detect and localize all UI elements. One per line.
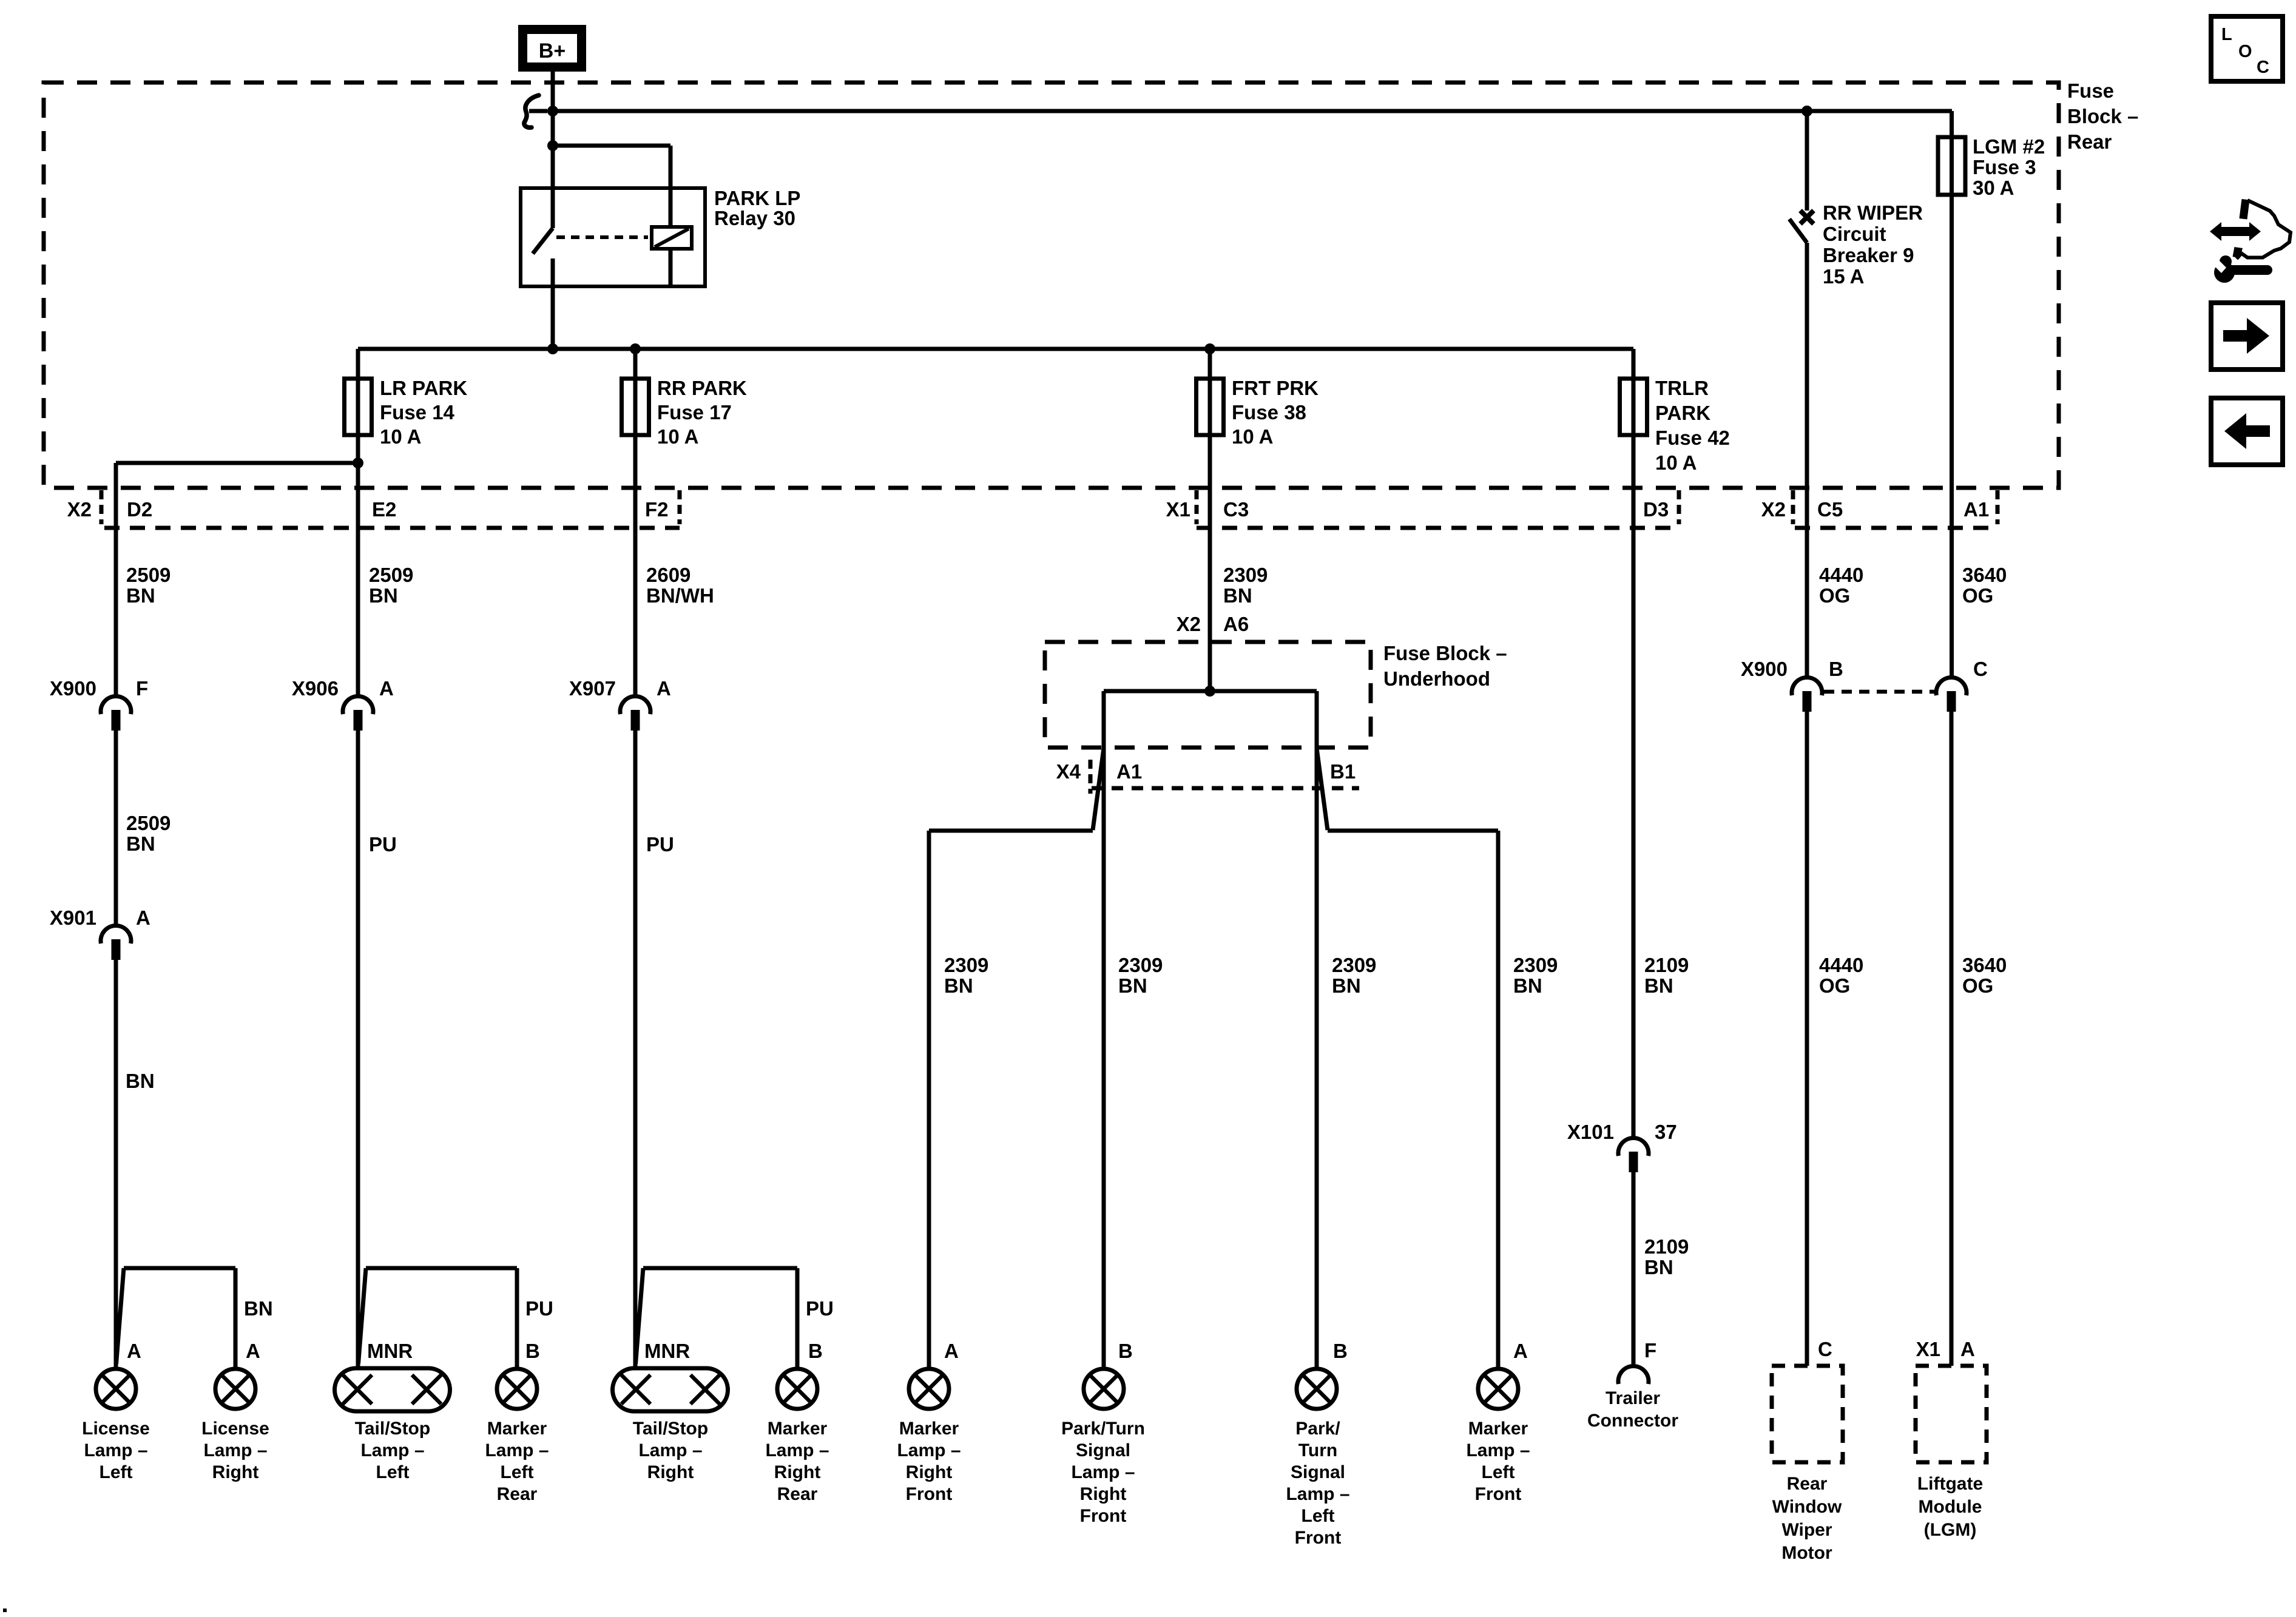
relay coil box [652, 227, 692, 249]
svg-text:Fuse Block –: Fuse Block – [1383, 642, 1507, 664]
svg-text:F: F [1644, 1339, 1656, 1362]
svg-text:OG: OG [1962, 584, 1993, 607]
svg-text:2109: 2109 [1644, 954, 1689, 976]
svg-text:Right: Right [212, 1462, 259, 1482]
svg-text:A1: A1 [1116, 760, 1142, 783]
svg-text:Module: Module [1919, 1497, 1982, 1517]
wire to relay coil [553, 144, 670, 148]
svg-text:Connector: Connector [1587, 1411, 1678, 1431]
svg-text:Marker: Marker [899, 1419, 959, 1439]
svg-text:Fuse 38: Fuse 38 [1232, 401, 1306, 424]
wire 3640 OG lower [1950, 712, 1954, 1366]
svg-text:X2: X2 [1761, 498, 1786, 521]
marker lamp left front [1478, 1369, 1518, 1409]
back arrow icon [2211, 398, 2283, 465]
svg-text:Relay 30: Relay 30 [714, 207, 795, 229]
svg-text:B: B [1118, 1340, 1133, 1362]
svg-text:Right: Right [906, 1462, 953, 1482]
svg-text:RR PARK: RR PARK [657, 377, 747, 399]
svg-text:2309: 2309 [1118, 954, 1163, 976]
forward arrow icon [2211, 303, 2283, 370]
wire marker right front down [927, 831, 931, 1369]
svg-text:Fuse 17: Fuse 17 [657, 401, 732, 424]
wire 2109 BN lower [1632, 1172, 1636, 1366]
svg-text:10 A: 10 A [1232, 425, 1273, 448]
relay actuator dashed link [556, 235, 648, 239]
battery positive B+ symbol [523, 30, 582, 67]
svg-text:A: A [1513, 1340, 1528, 1362]
wire relay output to bus [551, 258, 555, 349]
svg-text:X1: X1 [1166, 498, 1190, 521]
svg-text:Right: Right [647, 1462, 694, 1482]
svg-text:Rear: Rear [2067, 130, 2112, 153]
separator F2 [678, 490, 682, 524]
svg-text:A: A [136, 906, 150, 929]
marker right rear branch [643, 1266, 797, 1271]
svg-text:Left: Left [100, 1462, 133, 1482]
wire LR PARK branch [356, 349, 360, 695]
relay coil wire to box bottom [669, 249, 673, 286]
svg-text:PU: PU [646, 833, 674, 856]
wire LGM fuse down [1950, 137, 1954, 677]
svg-text:License: License [201, 1419, 269, 1439]
svg-text:Marker: Marker [1468, 1419, 1528, 1439]
svg-text:Lamp –: Lamp – [1071, 1462, 1135, 1482]
svg-text:2309: 2309 [1223, 564, 1268, 586]
svg-text:Fuse 42: Fuse 42 [1655, 427, 1730, 449]
svg-text:B+: B+ [539, 39, 566, 62]
svg-text:X101: X101 [1567, 1121, 1614, 1143]
node bus relay output [547, 343, 558, 354]
svg-text:B: B [1829, 658, 1843, 680]
svg-text:A: A [246, 1340, 260, 1362]
svg-text:A1: A1 [1963, 498, 1989, 521]
svg-text:A: A [944, 1340, 959, 1362]
wire FRT PRK branch [1208, 349, 1212, 691]
node license branch tap [353, 457, 363, 468]
lamp license left [96, 1369, 136, 1409]
wire RR PARK branch [633, 349, 638, 695]
svg-text:BN: BN [369, 584, 398, 607]
svg-text:C: C [1818, 1338, 1832, 1360]
tail stop lamp left pill [335, 1368, 450, 1411]
fuse F17 RR PARK [622, 379, 649, 435]
svg-text:A: A [1960, 1338, 1975, 1360]
svg-text:PARK: PARK [1655, 402, 1710, 424]
svg-text:10 A: 10 A [1655, 451, 1697, 474]
rear window wiper motor box [1772, 1366, 1843, 1462]
svg-text:Lamp –: Lamp – [1466, 1440, 1530, 1460]
svg-text:Window: Window [1772, 1497, 1842, 1517]
separator X2 row1 [100, 490, 104, 524]
svg-text:F: F [136, 677, 148, 700]
svg-text:Lamp –: Lamp – [485, 1440, 549, 1460]
wire marker left front horiz [1328, 829, 1498, 833]
svg-text:X2: X2 [67, 498, 92, 521]
svg-text:Tail/Stop: Tail/Stop [355, 1419, 430, 1439]
svg-text:L: L [2221, 25, 2232, 44]
svg-text:MNR: MNR [644, 1340, 690, 1362]
svg-text:PU: PU [806, 1297, 834, 1320]
svg-text:A: A [127, 1340, 141, 1362]
svg-text:BN: BN [1223, 584, 1252, 607]
separator X1 [1195, 490, 1199, 524]
svg-text:O: O [2238, 42, 2252, 61]
svg-text:Lamp –: Lamp – [84, 1440, 147, 1460]
connector X101 37 [1618, 1138, 1649, 1156]
connector row fine dashed line right [1795, 526, 1997, 530]
bus wire [358, 347, 1633, 351]
pt signal lamp left front [1297, 1369, 1337, 1409]
svg-text:BN: BN [126, 832, 155, 855]
service icon wrench [2214, 262, 2235, 283]
separator A1 [1996, 490, 2000, 524]
svg-text:Tail/Stop: Tail/Stop [633, 1419, 708, 1439]
wire 4440 OG lower [1805, 712, 1809, 1366]
connector X906 A [343, 697, 373, 714]
node relay coil tap [547, 140, 558, 151]
svg-text:Front: Front [1295, 1528, 1342, 1548]
svg-text:2509: 2509 [369, 564, 413, 586]
svg-text:2309: 2309 [1513, 954, 1558, 976]
svg-text:Lamp –: Lamp – [765, 1440, 829, 1460]
tail stop lamp right Xs [621, 1375, 650, 1404]
wire marker left front down [1496, 831, 1501, 1369]
wire A1 branch down [1102, 691, 1106, 1369]
svg-text:Front: Front [906, 1484, 953, 1504]
svg-text:PU: PU [369, 833, 397, 856]
connector X900 F [101, 697, 131, 714]
marker lamp left rear [497, 1369, 537, 1409]
tail stop lamp left Xs [343, 1375, 372, 1404]
wire B1 branch down [1315, 691, 1319, 1369]
tail stop lamp right pill [613, 1368, 728, 1411]
svg-text:C: C [1973, 658, 1988, 680]
liftgate module box [1916, 1366, 1987, 1462]
svg-text:Underhood: Underhood [1383, 667, 1490, 690]
svg-text:Wiper: Wiper [1781, 1520, 1832, 1540]
svg-text:A: A [379, 677, 394, 700]
svg-text:BN: BN [1513, 974, 1542, 997]
svg-text:4440: 4440 [1819, 954, 1863, 976]
svg-text:PARK LP: PARK LP [714, 187, 800, 209]
svg-text:BN: BN [244, 1297, 273, 1320]
svg-text:Signal: Signal [1291, 1462, 1345, 1482]
svg-text:D2: D2 [127, 498, 152, 521]
svg-text:BN: BN [126, 1070, 155, 1092]
connector X900 B [1792, 678, 1822, 695]
wire B+ down [551, 72, 555, 228]
svg-text:MNR: MNR [367, 1340, 413, 1362]
LOC reference icon [2211, 16, 2283, 81]
svg-text:2309: 2309 [1332, 954, 1376, 976]
svg-text:Right: Right [774, 1462, 821, 1482]
separator X2 row2 [1791, 490, 1795, 524]
svg-text:RR WIPER: RR WIPER [1823, 201, 1923, 224]
svg-text:2309: 2309 [944, 954, 988, 976]
svg-text:15 A: 15 A [1823, 265, 1864, 288]
svg-text:BN: BN [126, 584, 155, 607]
svg-text:BN/WH: BN/WH [646, 584, 714, 607]
relay switch blade [533, 228, 553, 254]
connector X907 A [620, 697, 650, 714]
svg-text:E2: E2 [372, 498, 396, 521]
svg-text:LR PARK: LR PARK [380, 377, 467, 399]
svg-text:30 A: 30 A [1973, 177, 2014, 199]
svg-text:3640: 3640 [1962, 564, 2007, 586]
svg-text:X1: X1 [1916, 1338, 1940, 1360]
svg-text:LGM #2: LGM #2 [1973, 135, 2045, 158]
svg-text:Front: Front [1080, 1506, 1127, 1526]
svg-text:BN: BN [1118, 974, 1147, 997]
svg-text:Motor: Motor [1781, 1543, 1832, 1563]
svg-text:C3: C3 [1223, 498, 1249, 521]
wire B1 tap slant [1317, 748, 1328, 830]
separator D3 [1677, 490, 1681, 524]
svg-text:X900: X900 [1741, 658, 1788, 680]
connector row fine dashed line middle [1197, 526, 1675, 530]
marker lamp right front [909, 1369, 949, 1409]
svg-text:37: 37 [1655, 1121, 1677, 1143]
svg-text:Turn: Turn [1298, 1440, 1337, 1460]
svg-text:Rear: Rear [777, 1484, 818, 1504]
svg-text:Park/Turn: Park/Turn [1061, 1419, 1145, 1439]
node breaker tap [1801, 106, 1812, 116]
svg-text:Lamp –: Lamp – [1286, 1484, 1349, 1504]
svg-text:(LGM): (LGM) [1924, 1520, 1977, 1540]
wire TRLR PARK branch [1632, 349, 1636, 1137]
relay PARK LP Relay 30 box [521, 188, 705, 286]
svg-text:OG: OG [1962, 974, 1993, 997]
svg-text:C: C [2257, 58, 2269, 77]
svg-text:X906: X906 [292, 677, 339, 700]
svg-text:B: B [1333, 1340, 1348, 1362]
svg-text:2509: 2509 [126, 812, 171, 834]
svg-text:License: License [82, 1419, 150, 1439]
svg-text:BN: BN [1644, 974, 1673, 997]
fuse F14 LR PARK [345, 379, 372, 435]
svg-text:Marker: Marker [768, 1419, 828, 1439]
svg-text:Signal: Signal [1076, 1440, 1130, 1460]
svg-text:X2: X2 [1177, 613, 1201, 635]
license lamp branch [124, 1266, 235, 1271]
svg-text:A6: A6 [1223, 613, 1249, 635]
wire corner down to LGM fuse [1950, 111, 1954, 137]
lamp license right [215, 1369, 255, 1409]
fuse block underhood dashed box [1045, 642, 1371, 748]
wire PU col C [633, 731, 638, 1368]
page mark [3, 1609, 7, 1612]
svg-text:Liftgate: Liftgate [1917, 1474, 1983, 1494]
svg-text:Fuse: Fuse [2067, 79, 2114, 102]
svg-text:Rear: Rear [1787, 1474, 1828, 1494]
svg-text:Right: Right [1080, 1484, 1127, 1504]
svg-text:2109: 2109 [1644, 1235, 1689, 1258]
node at B+ feed split [547, 106, 558, 116]
fuse F38 FRT PRK [1197, 379, 1224, 435]
trailer connector arc [1618, 1366, 1649, 1384]
wire marker right front horiz [929, 829, 1093, 833]
svg-text:OG: OG [1819, 584, 1850, 607]
wire feed to right (to breaker and LGM fuse) [553, 109, 1952, 113]
connector X900 C [1936, 678, 1967, 695]
fuse F3 LGM #2 [1938, 137, 1965, 195]
svg-text:BN: BN [944, 974, 973, 997]
wire license branch [116, 461, 358, 465]
node underhood split [1204, 686, 1215, 697]
wire underhood header [1104, 689, 1317, 694]
fuse block rear dashed box [44, 83, 2059, 488]
svg-text:Circuit: Circuit [1823, 223, 1886, 245]
svg-text:BN: BN [1332, 974, 1361, 997]
circuit breaker 9 RR WIPER [1805, 111, 1809, 211]
svg-text:Park/: Park/ [1295, 1419, 1340, 1439]
wire 2509 BN col A upper [114, 463, 118, 695]
svg-text:Fuse 14: Fuse 14 [380, 401, 455, 424]
svg-text:X907: X907 [569, 677, 616, 700]
wire 2509 BN col A mid [114, 731, 118, 925]
svg-text:X901: X901 [50, 906, 96, 929]
svg-text:Lamp –: Lamp – [360, 1440, 424, 1460]
svg-text:B: B [525, 1340, 540, 1362]
pt signal lamp right front [1084, 1369, 1124, 1409]
marker lamp right rear [777, 1369, 817, 1409]
svg-text:X900: X900 [50, 677, 96, 700]
svg-text:Block –: Block – [2067, 105, 2138, 127]
dashed link X900 B-C [1824, 690, 1934, 694]
svg-text:3640: 3640 [1962, 954, 2007, 976]
svg-text:Left: Left [501, 1462, 534, 1482]
svg-text:Breaker 9: Breaker 9 [1823, 244, 1914, 266]
svg-text:A: A [657, 677, 671, 700]
svg-text:F2: F2 [645, 498, 669, 521]
fuse F42 TRLR PARK [1620, 379, 1647, 435]
svg-text:Left: Left [376, 1462, 410, 1482]
svg-text:TRLR: TRLR [1655, 377, 1709, 399]
separator X4 [1089, 760, 1093, 794]
wire A1 tap slant [1093, 748, 1104, 830]
svg-text:Lamp –: Lamp – [897, 1440, 961, 1460]
wire BN col A low [114, 960, 118, 1369]
svg-text:Left: Left [1482, 1462, 1515, 1482]
svg-text:BN: BN [1644, 1256, 1673, 1278]
svg-text:10 A: 10 A [657, 425, 698, 448]
svg-text:Lamp –: Lamp – [638, 1440, 702, 1460]
svg-text:D3: D3 [1643, 498, 1669, 521]
service icon double arrow [2210, 222, 2261, 241]
node bus FRT PRK tap [1204, 343, 1215, 354]
underhood row fine dashed line [1092, 786, 1359, 791]
svg-text:PU: PU [525, 1297, 553, 1320]
svg-text:4440: 4440 [1819, 564, 1863, 586]
fusible link symbol [524, 95, 539, 127]
svg-text:Lamp –: Lamp – [203, 1440, 267, 1460]
svg-text:Trailer: Trailer [1606, 1388, 1660, 1408]
svg-text:FRT PRK: FRT PRK [1232, 377, 1319, 399]
wire PU col B [356, 731, 360, 1368]
svg-text:2609: 2609 [646, 564, 690, 586]
svg-text:Rear: Rear [497, 1484, 538, 1504]
svg-text:10 A: 10 A [380, 425, 421, 448]
svg-text:B1: B1 [1330, 760, 1356, 783]
svg-text:Front: Front [1475, 1484, 1522, 1504]
connector row fine dashed line left [104, 526, 680, 530]
svg-text:Fuse 3: Fuse 3 [1973, 156, 2036, 178]
connector X901 A [101, 926, 131, 944]
svg-text:2509: 2509 [126, 564, 171, 586]
svg-text:Left: Left [1302, 1506, 1335, 1526]
node bus RR PARK tap [630, 343, 641, 354]
svg-text:Marker: Marker [487, 1419, 547, 1439]
svg-text:C5: C5 [1817, 498, 1843, 521]
service icon glove outline [2237, 200, 2291, 259]
svg-text:X4: X4 [1056, 760, 1081, 783]
svg-text:B: B [808, 1340, 823, 1362]
marker left rear branch [366, 1266, 517, 1271]
svg-text:OG: OG [1819, 974, 1850, 997]
